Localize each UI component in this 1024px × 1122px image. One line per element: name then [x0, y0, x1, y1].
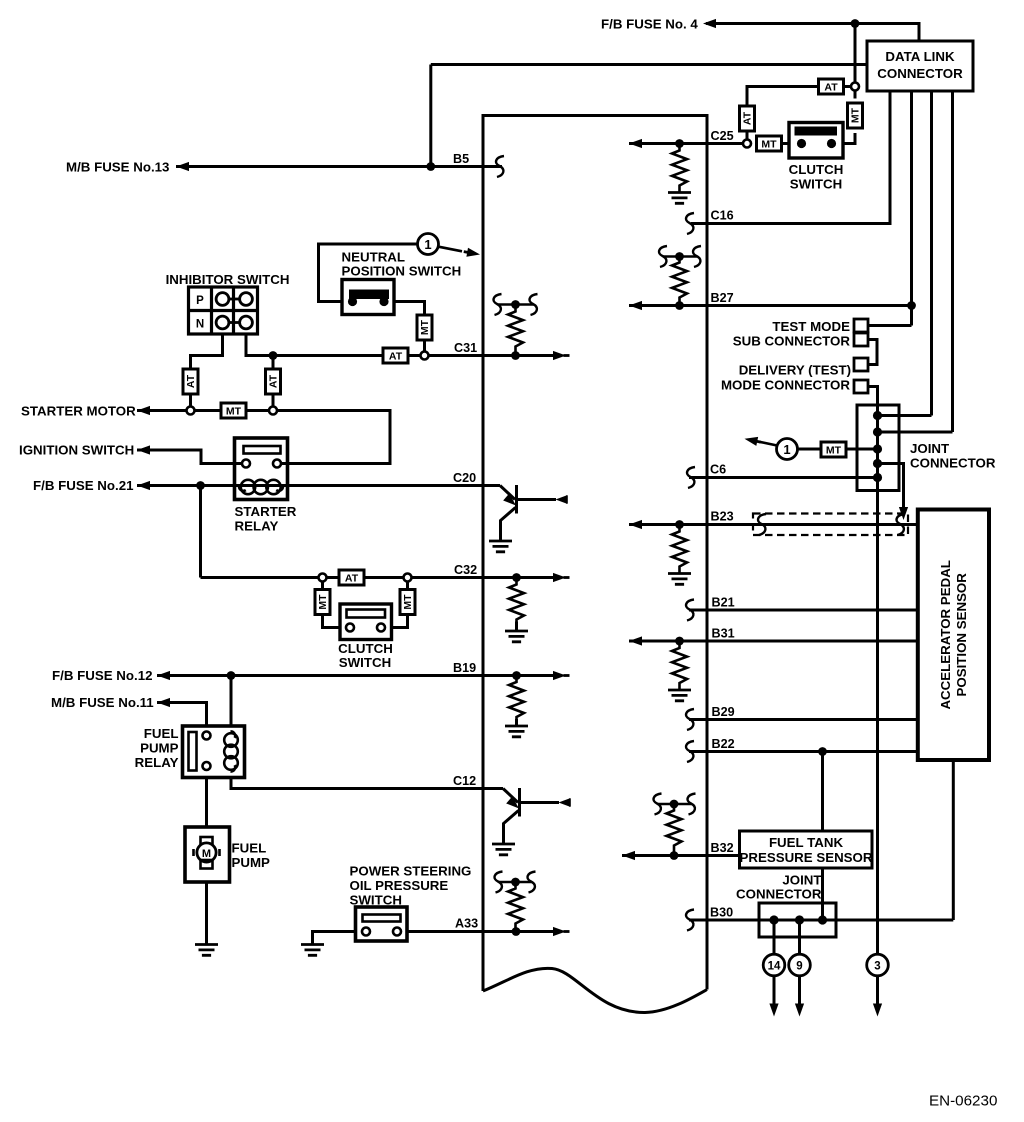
AT vertical box inhibitor left — [183, 369, 198, 394]
wire relay coil bottom to C12 — [231, 766, 503, 789]
arrow F/B fuse 12 — [157, 671, 174, 680]
svg-text:CONNECTOR: CONNECTOR — [736, 887, 822, 902]
fuel pump relay box — [183, 726, 245, 778]
JC2 pin dots — [769, 915, 778, 924]
starter relay contact bar — [244, 446, 281, 454]
junction B19 resistor — [512, 671, 521, 680]
wire F/B fuse No.4 line — [706, 24, 919, 42]
arrow B19 into ECM — [553, 671, 570, 680]
circled 1 ref (left) — [418, 234, 439, 255]
wire C32 resistor stub — [515, 622, 518, 632]
ground C20 emitter — [489, 541, 512, 552]
svg-text:DATA LINK: DATA LINK — [885, 49, 955, 64]
svg-text:PUMP: PUMP — [232, 855, 271, 870]
arrow from circled 1 down-right — [439, 247, 463, 252]
clutch switch 1 contact left — [797, 139, 806, 148]
svg-text:B23: B23 — [711, 510, 734, 524]
circled 1 ref (right) — [777, 439, 798, 460]
junction B22 branch — [818, 747, 827, 756]
svg-text:STARTER MOTOR: STARTER MOTOR — [21, 404, 136, 419]
ECM wavy bottom edge — [483, 968, 707, 1012]
wire B19 branch to relay coil — [230, 676, 233, 735]
shield curl left — [758, 514, 766, 535]
svg-text:OIL PRESSURE: OIL PRESSURE — [350, 878, 449, 893]
PS switch bar — [363, 915, 401, 922]
svg-text:C12: C12 — [453, 774, 476, 788]
inhibitor N contacts — [216, 316, 252, 329]
svg-text:F/B FUSE No. 4: F/B FUSE No. 4 — [601, 17, 698, 32]
fuel pump relay contact bottom — [203, 762, 211, 770]
wire JC pin4 shield drain — [878, 464, 904, 509]
svg-text:POSITION SWITCH: POSITION SWITCH — [342, 264, 462, 279]
starter relay contact right — [273, 460, 281, 468]
svg-text:SUB CONNECTOR: SUB CONNECTOR — [733, 334, 851, 349]
clutch switch 1 box — [789, 123, 843, 159]
wire switch right to MT — [384, 302, 425, 316]
svg-text:CLUTCH: CLUTCH — [338, 641, 393, 656]
transistor C12 — [503, 788, 559, 844]
svg-text:C16: C16 — [711, 209, 734, 223]
junction B32 curls top — [658, 803, 692, 806]
ground B23 resistor — [668, 574, 691, 585]
clutch switch 1 closed bar — [795, 127, 838, 136]
wire inhibitor right leg — [246, 334, 273, 356]
svg-text:9: 9 — [796, 961, 802, 973]
wire PS switch to ground — [313, 932, 363, 945]
fuel pump top nub — [201, 837, 213, 846]
ECM main box outline — [483, 116, 707, 992]
svg-text:3: 3 — [874, 961, 880, 973]
svg-text:CONNECTOR: CONNECTOR — [877, 66, 963, 81]
wire JC pin3 to MT — [847, 448, 878, 451]
arrow down pin 3 — [873, 1004, 882, 1017]
ground C12 emitter — [492, 844, 515, 855]
wire APS bottom pin — [952, 760, 955, 920]
svg-text:M: M — [202, 848, 211, 860]
svg-text:FUEL: FUEL — [232, 841, 267, 856]
terminal circle C25 — [743, 140, 751, 148]
junction B23 resistor — [675, 520, 684, 529]
wire right MT drop — [381, 582, 408, 628]
wire clutch switch right to MT riser — [843, 133, 855, 144]
break curl B21 — [686, 600, 694, 621]
svg-text:1: 1 — [424, 237, 431, 252]
svg-text:M/B FUSE No.11: M/B FUSE No.11 — [51, 695, 154, 710]
ground C32 resistor — [505, 631, 528, 642]
wire AT branch — [747, 87, 851, 140]
svg-text:C20: C20 — [453, 471, 476, 485]
svg-text:CONNECTOR: CONNECTOR — [910, 456, 996, 471]
clutch switch 2 box — [340, 604, 392, 640]
ground fuel pump — [195, 945, 218, 956]
wire B5 riser to top — [431, 65, 867, 167]
wire F/B fuse 21 / C20 line — [137, 484, 500, 487]
ground B19 resistor — [505, 726, 528, 737]
shield curl right — [897, 514, 905, 535]
arrow down pin 9 — [795, 1004, 804, 1017]
neutral switch contact left — [348, 297, 357, 306]
MT box on C25 line — [757, 136, 782, 151]
wire relay contact to fuel pump — [205, 770, 208, 834]
AT horizontal box top — [819, 79, 844, 94]
fuel pump relay contact bar — [189, 732, 197, 771]
junction C31 at inhibitor — [269, 351, 278, 360]
fuel pump box — [185, 827, 230, 882]
svg-text:C31: C31 — [454, 341, 477, 355]
junction C31 line — [511, 351, 520, 360]
svg-text:PUMP: PUMP — [140, 741, 179, 756]
svg-text:NEUTRAL: NEUTRAL — [342, 250, 406, 265]
junction B27 to DLC — [907, 301, 916, 310]
clutch switch 2 contact left — [346, 624, 354, 632]
resistor B27 — [672, 260, 687, 304]
fuel pump relay contact top — [203, 732, 211, 740]
wire circle up to fuse4 junction — [854, 24, 857, 83]
wire B19 resistor stub — [515, 719, 518, 726]
wire fuel pump to ground — [205, 869, 208, 945]
MT vertical box C32 right — [400, 590, 415, 615]
junction B31 resistor — [675, 637, 684, 646]
resistor A33 — [508, 886, 523, 930]
svg-text:P: P — [196, 295, 204, 307]
resistor B23 — [672, 529, 687, 573]
resistor B31 — [672, 645, 687, 689]
starter relay box — [235, 438, 288, 500]
wire data link pin 3 — [930, 91, 933, 416]
clutch switch 1 contact right — [827, 139, 836, 148]
wire joint bus down to circled 3 — [876, 416, 879, 955]
arrow B23 out — [629, 520, 646, 529]
svg-text:B27: B27 — [711, 291, 734, 305]
wire JC pin2 to DLC pin4 — [878, 431, 953, 434]
wire fuel tank sensor to JC2 — [821, 868, 824, 920]
wire B32 line — [622, 854, 740, 857]
break curl C16 — [686, 213, 694, 234]
wire data link pin 2 to B27 — [910, 91, 913, 326]
break curl B22 — [686, 741, 694, 762]
svg-text:SWITCH: SWITCH — [790, 177, 842, 192]
wire JC2 pin 14 down — [773, 920, 776, 954]
ground C25 resistor — [668, 193, 691, 204]
MT vertical box C32 left — [315, 590, 330, 615]
junction B5 — [426, 162, 435, 171]
junction fuse4/DLC — [851, 19, 860, 28]
junction C32 resistor — [512, 573, 521, 582]
junction C25 resistor — [675, 139, 684, 148]
fuel pump motor M — [197, 843, 216, 862]
PS switch contact right — [393, 928, 401, 936]
terminal circle starter motor left — [187, 407, 195, 415]
arrow down pin 14 — [769, 1004, 778, 1017]
MT vertical box neutral — [417, 315, 432, 340]
svg-text:B19: B19 — [453, 661, 476, 675]
wire B29 line — [689, 718, 918, 721]
wire M/B fuse 11 to relay — [157, 703, 207, 732]
neutral position switch box — [342, 280, 394, 315]
break curl B29 — [686, 709, 694, 730]
transistor C20 — [500, 485, 556, 541]
wire circled1 to switch left — [319, 244, 418, 302]
PS switch contact left — [362, 928, 370, 936]
svg-text:POWER STEERING: POWER STEERING — [350, 864, 472, 879]
neutral switch closed bar — [349, 290, 389, 300]
junction B32 line — [670, 851, 679, 860]
svg-text:B5: B5 — [453, 152, 469, 166]
svg-text:JOINT: JOINT — [782, 873, 821, 888]
wire B22 branch to fuel tank sensor — [821, 752, 824, 832]
clutch switch 2 open bar — [347, 610, 386, 618]
inhibitor P contacts — [216, 293, 252, 306]
wire test mode sub connector pin1 — [868, 324, 912, 327]
terminal circle C32 left — [319, 574, 327, 582]
svg-text:FUEL TANK: FUEL TANK — [769, 835, 844, 850]
arrow into F/B fuse 4 — [703, 19, 720, 28]
wire MT box top to circle — [854, 91, 857, 99]
wire A33 line — [401, 930, 556, 933]
terminal circle C31 — [421, 352, 429, 360]
wire B22 line — [689, 750, 918, 753]
svg-text:B29: B29 — [712, 705, 735, 719]
arrow M/B fuse 11 — [157, 698, 174, 707]
arrow C25 out — [629, 139, 646, 148]
AT horizontal box C31 — [383, 348, 408, 363]
arrow shield drain down — [899, 507, 908, 520]
wire AT to MT circle — [272, 394, 275, 406]
svg-text:CLUTCH: CLUTCH — [789, 162, 844, 177]
wire JC2 pin 9 down — [798, 920, 801, 954]
wire MT to clutch switch — [781, 142, 789, 145]
svg-text:C6: C6 — [710, 463, 726, 477]
MT horizontal box starter motor — [221, 403, 246, 418]
svg-text:ACCELERATOR PEDAL: ACCELERATOR PEDAL — [938, 560, 953, 709]
svg-text:RELAY: RELAY — [135, 755, 179, 770]
sensor FUEL TANK PRESSURE SENSOR box — [740, 831, 873, 868]
svg-text:B32: B32 — [711, 841, 734, 855]
wire B31 line — [629, 640, 918, 643]
circled 3 — [867, 954, 889, 976]
junction A33 curls top — [499, 881, 532, 884]
resistor C32 — [509, 582, 524, 626]
wire circled1 link — [798, 448, 821, 451]
junction B27 resistor top curls — [663, 255, 697, 258]
wire left MT drop — [323, 582, 351, 628]
circled 9 — [789, 954, 811, 976]
wire C31 line — [273, 354, 383, 357]
wire M/B fuse No.13 / B5 line — [176, 165, 502, 168]
junction C31 resistor curls — [498, 303, 534, 306]
arrow B27 out — [629, 301, 646, 310]
svg-text:JOINT: JOINT — [910, 441, 949, 456]
junction C20/C32 — [196, 481, 205, 490]
power steering switch box — [356, 907, 408, 941]
svg-text:B22: B22 — [712, 737, 735, 751]
arrow B31 out — [629, 636, 646, 645]
wire JC pin5 C6 line — [689, 476, 878, 479]
svg-text:M/B FUSE No.13: M/B FUSE No.13 — [66, 160, 169, 175]
svg-text:B30: B30 — [710, 906, 733, 920]
ground PS switch — [301, 945, 324, 956]
inhibitor switch box — [189, 287, 258, 334]
wire right leg AT branch — [272, 356, 275, 370]
svg-text:F/B FUSE No.21: F/B FUSE No.21 — [33, 478, 134, 493]
svg-text:1: 1 — [783, 442, 790, 457]
AT vertical box C25 branch — [740, 106, 755, 131]
resistor C25 pull — [672, 148, 687, 192]
wire C25 line — [629, 142, 743, 145]
wire C20 junction down to C32 — [199, 486, 202, 578]
junction B19 relay branch — [227, 671, 236, 680]
arrow starter motor — [137, 406, 154, 415]
wire starter motor line — [137, 411, 390, 464]
junction A33 line — [512, 927, 521, 936]
sensor ACCELERATOR PEDAL POSITION SENSOR box — [918, 510, 989, 761]
arrow B32 out — [622, 851, 639, 860]
clutch switch 2 contact right — [377, 624, 385, 632]
starter relay contact left — [242, 460, 250, 468]
svg-text:TEST MODE: TEST MODE — [772, 319, 850, 334]
circled 14 — [763, 954, 785, 976]
break curl C6 — [687, 467, 695, 488]
terminal circle C32 right — [404, 574, 412, 582]
svg-text:SWITCH: SWITCH — [339, 655, 391, 670]
svg-text:INHIBITOR SWITCH: INHIBITOR SWITCH — [166, 272, 290, 287]
svg-text:FUEL: FUEL — [144, 726, 179, 741]
break curl B5 — [496, 156, 504, 177]
neutral switch contact right — [379, 297, 388, 306]
svg-text:A33: A33 — [455, 917, 478, 931]
svg-text:IGNITION SWITCH: IGNITION SWITCH — [19, 443, 134, 458]
svg-text:N: N — [196, 319, 204, 331]
fuel pump bottom nub — [201, 860, 213, 869]
svg-text:EN-06230: EN-06230 — [929, 1093, 997, 1110]
wire B30 line — [689, 919, 953, 922]
resistor B19 — [509, 679, 524, 723]
MT vertical box top — [848, 103, 863, 128]
wire B23 line — [629, 523, 918, 526]
wire MT to C31 circle — [423, 340, 426, 352]
arrow into M/B fuse 13 — [176, 162, 193, 171]
wire C32 line — [201, 576, 557, 579]
svg-text:C25: C25 — [711, 129, 734, 143]
arrow A33 into ECM — [553, 927, 570, 936]
JC1 pin dots — [873, 411, 882, 420]
MT box JC pin3 — [821, 442, 846, 457]
wire B27 line — [629, 304, 912, 307]
svg-text:STARTER: STARTER — [235, 504, 297, 519]
svg-text:PRESSURE SENSOR: PRESSURE SENSOR — [739, 850, 872, 865]
AT horizontal box C32 — [339, 570, 364, 585]
shield dashed box B23 — [753, 514, 908, 536]
wire JC pin1 to DLC pin3 — [878, 414, 932, 417]
ground B31 resistor — [668, 690, 691, 701]
wire test mode sub connector pin2 — [868, 340, 877, 365]
arrow C31 into ECM — [553, 351, 570, 360]
arrow C32 into ECM — [553, 573, 570, 582]
svg-text:14: 14 — [768, 961, 781, 973]
AT vertical box inhibitor right — [266, 369, 281, 394]
svg-text:MODE CONNECTOR: MODE CONNECTOR — [721, 378, 850, 393]
connector DATA LINK CONNECTOR — [867, 41, 973, 91]
joint connector 2 box — [759, 903, 836, 937]
svg-text:B31: B31 — [712, 627, 735, 641]
break curl B30 — [686, 910, 694, 931]
wire B19 line — [157, 674, 556, 677]
arrow ignition switch — [137, 445, 154, 454]
svg-text:B21: B21 — [712, 596, 735, 610]
wire inhibitor left leg — [191, 334, 223, 357]
joint connector 1 box — [857, 405, 899, 491]
wire AT to starter motor circle — [189, 394, 192, 406]
terminal circle starter motor right — [269, 407, 277, 415]
wire left leg to AT — [189, 356, 192, 370]
resistor B32 — [667, 808, 682, 852]
junction B27 resistor bottom — [675, 301, 684, 310]
svg-text:POSITION SENSOR: POSITION SENSOR — [954, 573, 969, 697]
wire B21 line — [689, 609, 918, 612]
arrow from circled 1 up-left — [759, 442, 777, 446]
svg-text:F/B FUSE No.12: F/B FUSE No.12 — [52, 668, 152, 683]
wire data link pin 4 — [951, 91, 954, 432]
svg-text:DELIVERY (TEST): DELIVERY (TEST) — [739, 363, 851, 378]
svg-text:C32: C32 — [454, 563, 477, 577]
wire data link pin 1 to C16 — [691, 91, 890, 224]
fuel pump relay coil — [224, 731, 238, 771]
resistor C31 — [508, 309, 523, 353]
arrow F/B fuse 21 — [137, 481, 154, 490]
starter relay coil — [239, 480, 283, 494]
wire ignition switch line — [137, 450, 242, 464]
wire delivery mode connector pin2 to joint connector — [868, 387, 878, 416]
terminal circle AT/MT top — [851, 83, 859, 91]
svg-text:RELAY: RELAY — [235, 519, 279, 534]
